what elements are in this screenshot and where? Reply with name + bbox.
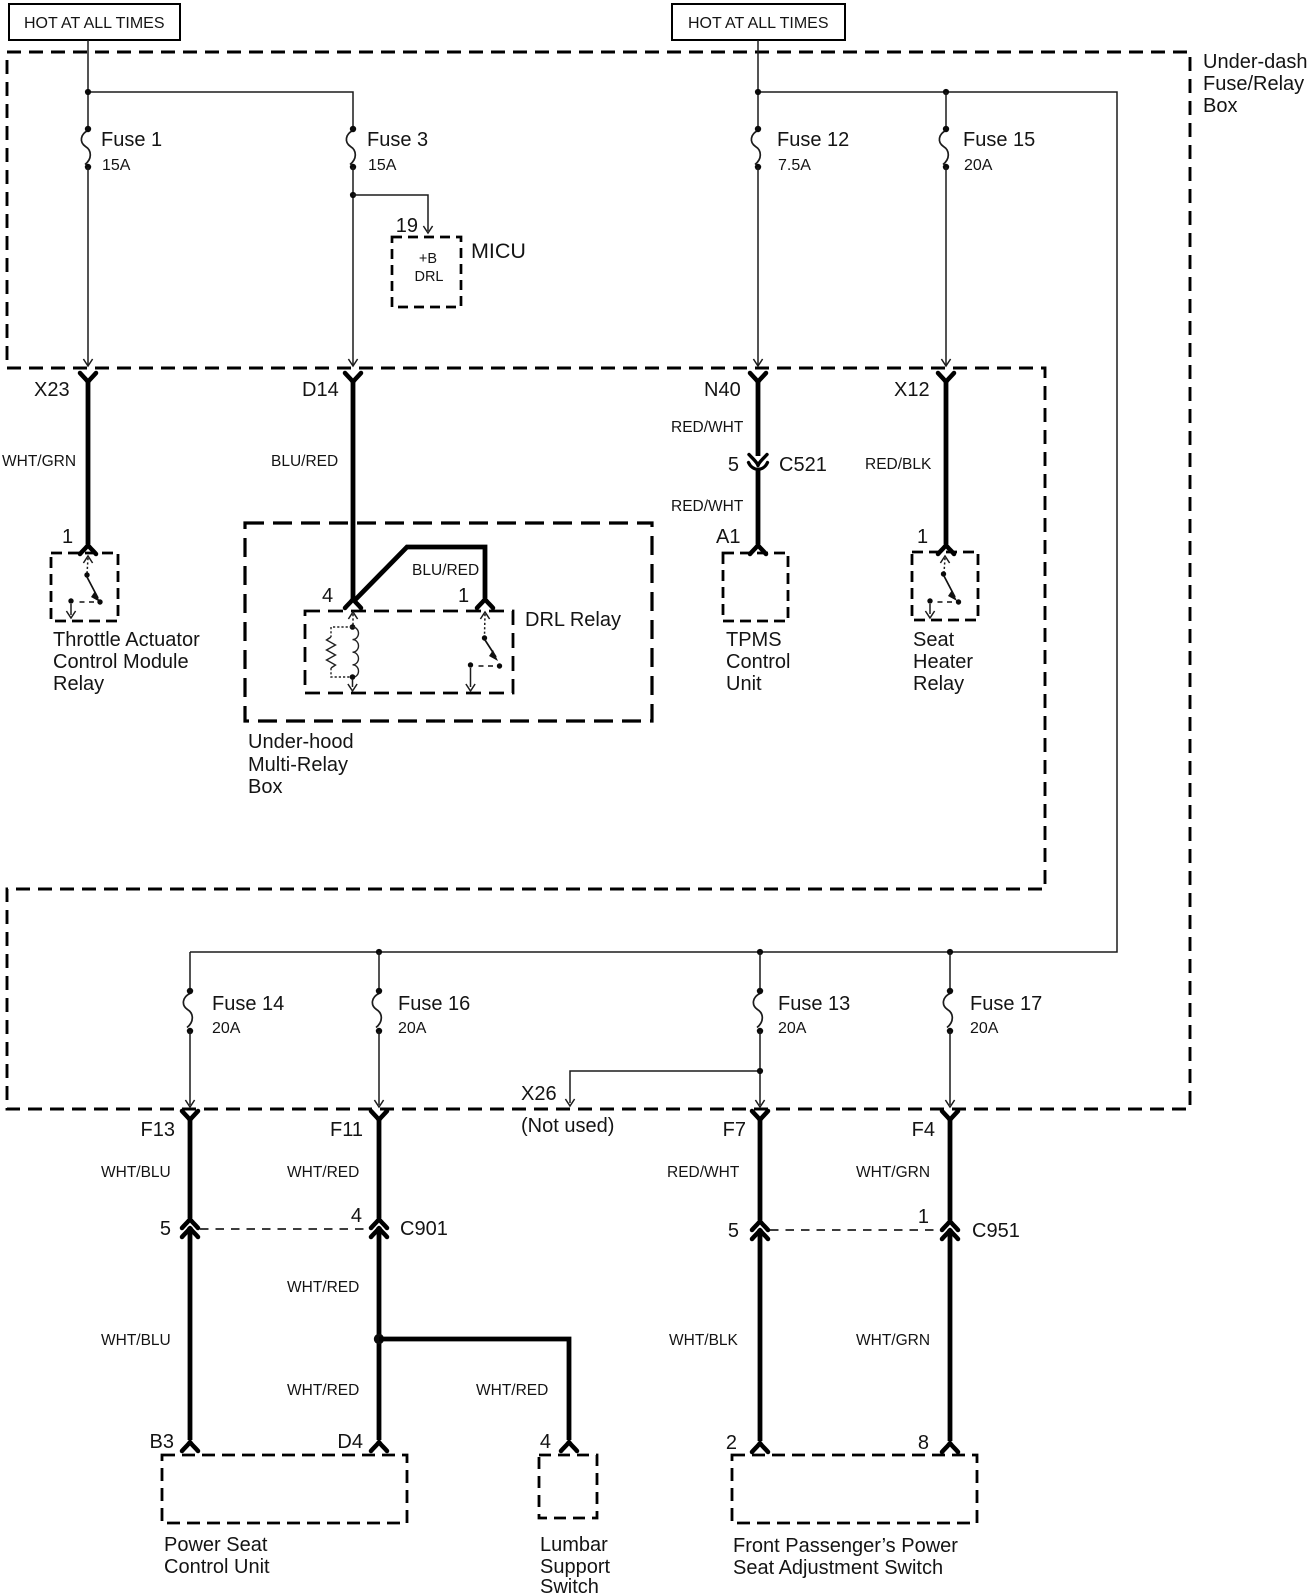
wire: fuse 13 drop	[759, 952, 761, 991]
svg-text:Relay: Relay	[913, 673, 964, 695]
fuse Fuse 14 20A	[183, 994, 192, 1028]
svg-text:C951: C951	[972, 1220, 1020, 1242]
wire BLU/RED D14 to DRL relay pin 4	[351, 380, 356, 600]
svg-text:F4: F4	[912, 1119, 935, 1141]
wire: fuse 17 drop	[949, 952, 951, 991]
fuse Fuse 13 20A	[753, 994, 762, 1028]
wire: fuse14 to F13	[189, 1031, 191, 1105]
seat heater relay internal switch	[925, 556, 961, 618]
svg-text:8: 8	[918, 1432, 929, 1454]
svg-text:A1: A1	[716, 526, 740, 548]
wire RED/WHT N40 to C521	[756, 380, 761, 456]
Under-dash Fuse/Relay Box outline	[7, 52, 1190, 1109]
svg-text:Switch: Switch	[540, 1576, 599, 1594]
throttle actuator control module relay box	[51, 553, 118, 621]
wire WHT/GRN C951 to pin 8	[948, 1229, 953, 1441]
svg-text:1: 1	[62, 526, 73, 548]
svg-text:Fuse 15: Fuse 15	[963, 129, 1035, 151]
svg-text:RED/WHT: RED/WHT	[667, 1164, 740, 1181]
svg-text:Box: Box	[248, 776, 282, 798]
svg-text:5: 5	[728, 1220, 739, 1242]
svg-text:DRL Relay: DRL Relay	[525, 609, 621, 631]
svg-text:HOT AT ALL TIMES: HOT AT ALL TIMES	[688, 15, 829, 32]
svg-text:4: 4	[351, 1205, 362, 1227]
node: junction at 760,952	[757, 949, 763, 955]
wire WHT/RED C901 to D4	[377, 1227, 382, 1440]
svg-text:X26: X26	[521, 1083, 557, 1105]
svg-text:20A: 20A	[970, 1020, 999, 1037]
svg-text:Under-hood: Under-hood	[248, 731, 354, 753]
svg-text:C901: C901	[400, 1218, 448, 1240]
svg-text:Relay: Relay	[53, 673, 104, 695]
wire: HOT(left) down to fuse 1	[87, 40, 89, 129]
wire: branch to MICU pin 19	[353, 195, 428, 231]
svg-text:+B: +B	[419, 251, 437, 267]
wire WHT/BLK C951 to pin 2	[758, 1229, 763, 1441]
fuse Fuse 16 20A	[372, 994, 381, 1028]
svg-text:5: 5	[160, 1218, 171, 1240]
throttle relay internal switch	[66, 556, 102, 618]
wire WHT/GRN X23 to relay	[86, 380, 91, 544]
svg-text:Seat: Seat	[913, 629, 955, 651]
wire WHT/GRN F4 to C951	[948, 1118, 953, 1220]
svg-text:15A: 15A	[102, 157, 131, 174]
svg-text:Power Seat: Power Seat	[164, 1534, 268, 1556]
DRL relay coil	[327, 612, 359, 691]
svg-text:Throttle Actuator: Throttle Actuator	[53, 629, 200, 651]
svg-text:B3: B3	[150, 1431, 174, 1453]
under-hood multi-relay box	[245, 523, 652, 721]
svg-text:BLU/RED: BLU/RED	[412, 562, 479, 579]
svg-text:WHT/BLU: WHT/BLU	[101, 1332, 171, 1349]
svg-text:Fuse 17: Fuse 17	[970, 993, 1042, 1015]
fuse Fuse 17 20A	[943, 994, 952, 1028]
lumbar support switch box	[539, 1455, 597, 1518]
svg-text:15A: 15A	[368, 157, 397, 174]
node: junction at 950,952	[947, 949, 953, 955]
svg-text:F11: F11	[330, 1119, 363, 1141]
svg-text:20A: 20A	[778, 1020, 807, 1037]
svg-text:1: 1	[917, 526, 928, 548]
fuse Fuse 3 15A	[346, 131, 355, 165]
svg-text:Unit: Unit	[726, 673, 762, 695]
svg-text:Fuse 12: Fuse 12	[777, 129, 849, 151]
svg-text:MICU: MICU	[471, 239, 526, 263]
svg-text:WHT/GRN: WHT/GRN	[856, 1164, 930, 1181]
svg-text:7.5A: 7.5A	[778, 157, 811, 174]
node: junction at 760,1071	[757, 1068, 763, 1074]
node: junction at 379,1339	[374, 1334, 384, 1344]
DRL relay box	[305, 611, 513, 693]
svg-text:BLU/RED: BLU/RED	[271, 453, 338, 470]
wire WHT/BLU F13 to C901	[188, 1118, 193, 1218]
svg-text:4: 4	[322, 585, 333, 607]
svg-text:D14: D14	[302, 379, 339, 401]
svg-text:Heater: Heater	[913, 651, 973, 673]
wire WHT/BLU C901 to B3	[188, 1227, 193, 1440]
svg-text:WHT/GRN: WHT/GRN	[856, 1332, 930, 1349]
svg-text:RED/WHT: RED/WHT	[671, 498, 744, 515]
svg-text:HOT AT ALL TIMES: HOT AT ALL TIMES	[24, 15, 165, 32]
wire: fuse15 drop	[945, 92, 947, 129]
front passenger's power seat adjustment switch box	[732, 1455, 977, 1523]
wire: fuse1 to X23	[87, 167, 89, 365]
wire WHT/RED branch to lumbar support switch	[379, 1339, 569, 1440]
node: junction at 758,92	[755, 89, 761, 95]
svg-text:(Not used): (Not used)	[521, 1115, 614, 1137]
svg-text:Control Module: Control Module	[53, 651, 189, 673]
fuse Fuse 1 15A	[81, 131, 90, 165]
svg-text:Support: Support	[540, 1556, 610, 1578]
fuse Fuse 12 7.5A	[751, 131, 760, 165]
svg-text:N40: N40	[704, 379, 741, 401]
HOT AT ALL TIMES box (left)	[9, 4, 180, 40]
svg-text:19: 19	[396, 215, 418, 237]
svg-text:X23: X23	[34, 379, 70, 401]
svg-text:20A: 20A	[212, 1020, 241, 1037]
dashed link C901	[200, 1228, 370, 1230]
fuse Fuse 15 20A	[939, 131, 948, 165]
node: junction at 353,195	[350, 192, 356, 198]
svg-text:Multi-Relay: Multi-Relay	[248, 754, 348, 776]
wire: fuse3 to D14	[352, 167, 354, 365]
wire WHT/RED F11 to C901	[377, 1118, 382, 1218]
power seat control unit box	[162, 1455, 407, 1523]
svg-text:Control Unit: Control Unit	[164, 1556, 270, 1578]
svg-text:WHT/GRN: WHT/GRN	[2, 453, 76, 470]
svg-text:WHT/BLK: WHT/BLK	[669, 1332, 739, 1349]
wire BLU/RED jumper to DRL relay pin 1	[354, 547, 485, 601]
node: junction at 379,952	[376, 949, 382, 955]
wire RED/BLK X12 to seat heater relay	[944, 380, 949, 544]
svg-text:1: 1	[918, 1206, 929, 1228]
wire: fuse15 to X12	[945, 167, 947, 365]
svg-text:X12: X12	[894, 379, 930, 401]
svg-text:F13: F13	[141, 1119, 175, 1141]
node: junction at 88,92	[85, 89, 91, 95]
svg-text:Seat Adjustment Switch: Seat Adjustment Switch	[733, 1557, 943, 1579]
DRL relay switch	[466, 612, 502, 691]
svg-text:F7: F7	[723, 1119, 746, 1141]
svg-text:Fuse 16: Fuse 16	[398, 993, 470, 1015]
wire: X26 branch from fuse 13 output	[570, 1071, 760, 1103]
svg-text:Fuse 14: Fuse 14	[212, 993, 284, 1015]
svg-text:Box: Box	[1203, 95, 1237, 117]
svg-text:Fuse 3: Fuse 3	[367, 129, 428, 151]
wire: bus y=92 right side	[190, 92, 1117, 952]
svg-text:TPMS: TPMS	[726, 629, 782, 651]
svg-text:WHT/RED: WHT/RED	[287, 1164, 359, 1181]
svg-text:WHT/RED: WHT/RED	[287, 1279, 359, 1296]
wire: fuse12 to N40	[757, 167, 759, 365]
wire: fuse13 to F7	[759, 1031, 761, 1105]
svg-text:Fuse 13: Fuse 13	[778, 993, 850, 1015]
svg-text:Fuse 1: Fuse 1	[101, 129, 162, 151]
wire RED/WHT F7 to C951	[758, 1118, 763, 1220]
MICU box	[392, 237, 461, 307]
svg-text:1: 1	[458, 585, 469, 607]
node: junction at 946,92	[943, 89, 949, 95]
svg-text:5: 5	[728, 454, 739, 476]
wire: bus y=92 from fuse1 to fuse3	[88, 92, 353, 129]
svg-text:WHT/RED: WHT/RED	[476, 1382, 548, 1399]
svg-text:Lumbar: Lumbar	[540, 1534, 608, 1556]
svg-text:RED/BLK: RED/BLK	[865, 456, 932, 473]
svg-text:C521: C521	[779, 454, 827, 476]
svg-text:20A: 20A	[964, 157, 993, 174]
TPMS control unit box	[723, 553, 788, 621]
seat heater relay box	[912, 552, 978, 620]
svg-text:DRL: DRL	[414, 269, 443, 285]
svg-text:Under-dash: Under-dash	[1203, 51, 1308, 73]
svg-text:20A: 20A	[398, 1020, 427, 1037]
svg-text:WHT/BLU: WHT/BLU	[101, 1164, 171, 1181]
svg-text:D4: D4	[337, 1431, 363, 1453]
wire: HOT(right) down	[757, 40, 759, 129]
svg-text:2: 2	[726, 1432, 737, 1454]
dashed link C951	[770, 1229, 940, 1231]
HOT AT ALL TIMES box (right)	[672, 4, 845, 40]
wire: fuse 14 drop	[189, 952, 191, 991]
wire RED/WHT C521 to TPMS	[756, 470, 761, 544]
svg-text:RED/WHT: RED/WHT	[671, 419, 744, 436]
DRL pin 4 connector	[345, 599, 361, 608]
svg-text:WHT/RED: WHT/RED	[287, 1382, 359, 1399]
svg-text:Front Passenger’s Power: Front Passenger’s Power	[733, 1535, 958, 1557]
wire: fuse17 to F4	[949, 1031, 951, 1105]
svg-text:4: 4	[540, 1431, 551, 1453]
wire: fuse 16 drop	[378, 952, 380, 991]
svg-text:Fuse/Relay: Fuse/Relay	[1203, 73, 1304, 95]
svg-text:Control: Control	[726, 651, 790, 673]
wire: fuse16 to F11	[378, 1031, 380, 1105]
